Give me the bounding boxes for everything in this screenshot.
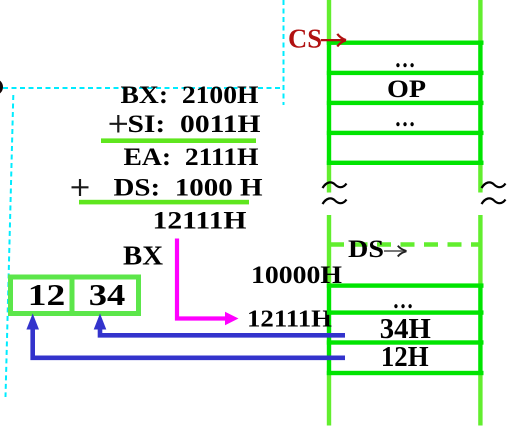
code segment bar 4 <box>327 131 484 135</box>
CS arrow <box>321 39 344 41</box>
blue wire from 34H cell (upper) <box>100 328 345 335</box>
memory right rail pale top <box>478 0 482 43</box>
cyan dashed selection border: horizontal top segment <box>3 87 284 89</box>
svg-text:BX: 2100H: BX: 2100H <box>121 82 260 109</box>
svg-text:34: 34 <box>89 277 126 312</box>
code segment bar 2 <box>327 71 484 75</box>
svg-text:34H: 34H <box>380 314 431 345</box>
svg-text:DS: DS <box>348 234 384 263</box>
data segment bar 3 <box>327 340 484 344</box>
circled-number arc (clipped at left edge) <box>0 79 3 95</box>
squiggle break right tilde 1 <box>482 182 506 188</box>
svg-text:12: 12 <box>28 277 66 312</box>
data segment bar 1 <box>327 283 484 287</box>
data segment bar 4 <box>327 371 484 375</box>
svg-text:12H: 12H <box>381 342 429 373</box>
svg-text:OP: OP <box>387 76 426 103</box>
dashed green DS base line <box>330 242 481 247</box>
svg-text:…: … <box>395 105 416 132</box>
memory left rail pale top <box>327 0 331 43</box>
data segment bar 2 <box>327 310 484 314</box>
memory left rail pale below code segment <box>327 165 331 193</box>
register box BX outer <box>11 277 139 314</box>
memory right rail pale below code segment <box>478 165 482 193</box>
code segment bar 1 (CS base) <box>327 41 484 45</box>
svg-text:DS: 1000 H: DS: 1000 H <box>114 175 264 202</box>
pink arrowhead <box>225 312 239 325</box>
svg-text:…: … <box>395 46 416 73</box>
memory right rail pale resume <box>478 215 482 284</box>
memory left rail bright (data segment) <box>327 284 331 375</box>
memory left rail bright (code segment) <box>327 41 331 166</box>
squiggle break left tilde 2 <box>323 198 347 204</box>
svg-text:EA: 2111H: EA: 2111H <box>124 144 260 171</box>
blue wire from 12H cell (lower) <box>33 328 345 358</box>
plus sign of DS line <box>72 179 89 196</box>
memory left rail pale resume <box>327 215 331 284</box>
code segment bar 5 <box>327 161 484 165</box>
memory right rail bright (data segment) <box>478 284 482 375</box>
green underline under SI line <box>101 138 256 143</box>
svg-text:12111H: 12111H <box>153 208 248 235</box>
svg-text:CS: CS <box>288 24 322 54</box>
svg-text:BX: BX <box>123 241 164 271</box>
green underline under DS line <box>79 200 249 205</box>
cyan dashed selection border: vertical right segment <box>283 0 285 105</box>
squiggle break left tilde 1 <box>323 182 347 188</box>
plus sign of SI line <box>110 115 128 133</box>
svg-text:…: … <box>393 287 414 314</box>
svg-text:SI: 0011H: SI: 0011H <box>128 111 262 138</box>
code segment bar 3 <box>327 101 484 105</box>
svg-text:12111H: 12111H <box>247 306 332 332</box>
blue arrowhead into cell 12 <box>26 314 39 330</box>
memory right rail bright (code segment) <box>478 41 482 166</box>
pink arrow physical address <box>177 239 226 319</box>
DS arrow <box>384 250 404 252</box>
squiggle break right tilde 2 <box>482 198 506 204</box>
blue arrowhead into cell 34 <box>94 314 107 330</box>
memory left rail pale bottom <box>327 375 331 426</box>
memory right rail pale bottom <box>478 375 482 426</box>
cyan dashed selection border: vertical left segment <box>6 95 14 397</box>
register box divider <box>70 277 75 314</box>
